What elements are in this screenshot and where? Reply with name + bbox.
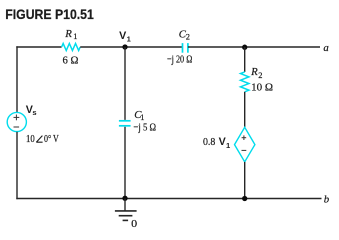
capacitor C1 [119,121,131,126]
svg-text:−j 20 Ω: −j 20 Ω [167,53,192,65]
svg-text:R: R [250,66,258,78]
svg-text:R: R [64,28,72,40]
svg-text:s: s [32,108,36,117]
resistor R2 [241,72,249,92]
wire: left rail bottom (source to bottom wire) [16,132,18,199]
svg-text:1: 1 [73,32,77,41]
wire: right branch top (junction to R2) [244,47,246,72]
wire: C2 to node a (through right branch junction) [188,46,320,48]
label 0.8 V1 [203,136,231,150]
svg-text:2: 2 [186,33,190,42]
ground [115,199,137,221]
wire: middle branch bottom (C1 to bottom wire) [124,127,126,199]
svg-text:0: 0 [131,218,138,229]
value label 10∠0° V [26,133,59,145]
junction dot at bottom of right branch [242,196,247,201]
svg-text:0.8: 0.8 [203,136,215,148]
wire: right branch middle (R2 to dependent source) [244,92,246,128]
svg-text:0° V: 0° V [44,133,59,145]
wire: right branch bottom (source to bottom wire) [244,162,246,199]
wire: top-left segment from left rail to R1 [16,46,61,48]
svg-text:1: 1 [140,113,144,122]
resistor R1 [62,44,81,51]
svg-text:−j 5 Ω: −j 5 Ω [133,122,156,134]
svg-text:6 Ω: 6 Ω [63,54,79,66]
dependent source 0.8 V1 [235,127,255,162]
svg-text:10 Ω: 10 Ω [251,82,273,94]
svg-text:a: a [323,42,328,54]
junction dot at top of right branch [242,45,247,50]
svg-text:2: 2 [258,71,262,80]
svg-text:10: 10 [26,133,35,145]
svg-text:FIGURE P10.51: FIGURE P10.51 [5,6,94,22]
junction dot at bottom of middle branch [122,196,127,201]
svg-text:b: b [324,193,330,205]
wire: bottom rail from left to node b [16,198,321,200]
node V1 junction dot [122,44,127,49]
voltage source Vs [7,112,26,131]
wire: R1 to C2 (through node V1) [80,46,182,48]
wire: left rail top (corner down to source) [16,46,18,112]
capacitor C2 [183,43,188,53]
wire: middle branch top (V1 down to C1) [124,47,126,120]
